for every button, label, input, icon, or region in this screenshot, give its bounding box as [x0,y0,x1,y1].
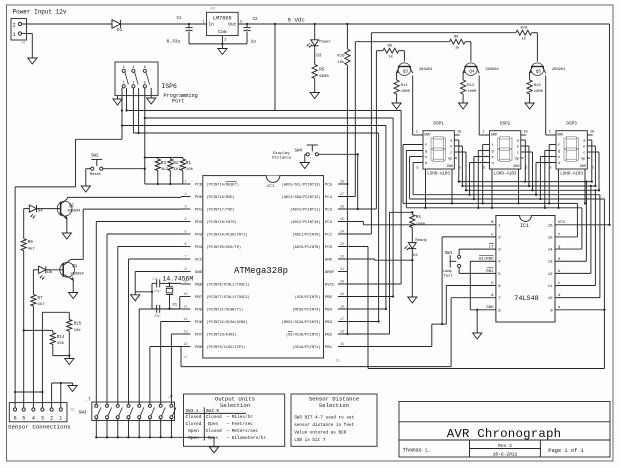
svg-text:11: 11 [548,285,553,289]
diode D1 [112,20,123,33]
svg-text:C1: C1 [177,17,183,21]
wire 5V rail to right edge [238,24,609,225]
wire SPI bus line MISO [122,125,386,127]
svg-text:J4: J4 [21,42,26,46]
IC IC1 74LS48 body [496,216,555,323]
svg-text:PC3: PC3 [325,209,333,213]
svg-text:2: 2 [13,22,16,28]
svg-text:(PCINT18/INT0): (PCINT18/INT0) [207,220,237,225]
svg-text:R4: R4 [416,216,422,220]
wire R7 to J2 pin4 [32,306,34,408]
resistor R14 10k [50,330,65,346]
svg-text:Port: Port [172,98,184,104]
svg-text:IC1: IC1 [520,223,529,229]
svg-text:Test: Test [444,274,453,278]
svg-text:(SCK/PCINT5): (SCK/PCINT5) [295,295,321,300]
svg-text:D4: D4 [38,210,44,214]
svg-text:4: 4 [184,218,186,222]
LED D3 power indicator [307,23,332,59]
svg-text:1: 1 [203,20,205,24]
svg-text:PB6: PB6 [195,284,203,288]
transistor Q4 with R12 1000 [459,42,500,109]
svg-text:1k: 1k [455,45,460,50]
wire J4 pin1 to ground [22,34,33,59]
IC1 left pin labels [479,221,501,313]
capacitor C5 20p [152,305,180,319]
svg-text:(ADC2/PCINT10): (ADC2/PCINT10) [290,220,320,225]
resistor R10 1k [516,27,532,42]
segment bus rows [403,182,604,208]
wire PC3 riser to R8 line [338,51,376,210]
wire J2 pin6 jog to pin3/R15 [15,312,43,393]
IC1 right pin labels [548,221,566,313]
svg-text:Power: Power [319,39,332,44]
svg-text:.0: .0 [168,396,174,400]
svg-text:1: 1 [123,82,125,86]
svg-text:b: b [450,145,452,150]
title author Thomas L. [403,448,432,454]
svg-text:3: 3 [184,205,186,209]
svg-text:3: 3 [132,82,134,86]
svg-text:f: f [492,143,494,148]
crystal cap common rail [151,283,153,308]
svg-text:17: 17 [340,318,344,322]
svg-text:D1: D1 [117,28,123,33]
wire PB1 to IC1 D input [338,286,496,347]
svg-text:U3: U3 [211,8,216,12]
display DSP3 [549,121,594,176]
svg-text:.7: .7 [86,399,92,403]
svg-text:Closed: Closed [206,429,222,434]
svg-text:(MOSI/OC2A/PCINT3): (MOSI/OC2A/PCINT3) [282,320,321,325]
svg-text:PB3: PB3 [325,321,333,325]
svg-text:(SS/OC1B/PCINT2): (SS/OC1B/PCINT2) [286,333,321,338]
wire Q1 collector to PD1 [83,209,181,259]
svg-text:C4: C4 [153,278,157,282]
svg-text:4: 4 [32,416,35,422]
label 14.7456M [163,275,194,282]
svg-text:DSP1: DSP1 [433,121,444,126]
svg-text:11: 11 [183,305,187,309]
svg-text:c: c [583,152,585,156]
ground below R15 [65,359,74,365]
ground below Q1 [69,293,78,299]
svg-text:SW2: SW2 [91,154,99,158]
svg-text:PB0: PB0 [195,346,203,350]
svg-text:(PCINT20/XCK/T0): (PCINT20/XCK/T0) [207,245,242,250]
LED D2 ready [405,228,428,259]
resistor R7 4k7 [31,294,45,307]
svg-text:13: 13 [548,261,553,265]
svg-text:AVCC: AVCC [325,284,335,288]
svg-text:10k: 10k [74,328,82,333]
svg-text:e: e [492,156,494,160]
svg-text:d: d [425,161,427,166]
wire D4 to R6 [24,209,30,239]
svg-text:13: 13 [183,330,187,334]
svg-text:14: 14 [548,249,553,253]
svg-text:7: 7 [184,255,186,259]
svg-text:PC6: PC6 [195,184,203,188]
svg-text:(ADC1/PCINT9): (ADC1/PCINT9) [292,233,320,238]
wire SW2 to reset net [103,168,146,170]
ground at J4 [28,58,37,64]
svg-text:PC0: PC0 [325,246,333,250]
switch SW3 DIP [92,402,176,421]
wire D1 to regulator [121,23,207,25]
svg-text:R14: R14 [57,336,65,340]
resistor R2 4k7 [168,158,181,186]
svg-text:SW4: SW4 [295,150,303,154]
wire GND pin to D2 cathode [338,259,413,261]
svg-text:R6: R6 [28,240,34,245]
ATMega RESET overline [226,180,237,182]
SW3 top wires staircase to ATMega [96,222,181,405]
svg-text:g: g [558,150,560,154]
display DSP1 [416,121,461,176]
ATMega left pin stubs and names [181,180,250,350]
svg-text:a: a [450,140,452,144]
svg-text:b: b [517,145,519,150]
svg-text:SW3: SW3 [79,411,87,416]
svg-text:(PCINT14/RESET): (PCINT14/RESET) [207,183,239,188]
svg-text:GND: GND [513,165,519,169]
switch SW4 display distance [272,145,318,160]
svg-text:D5: D5 [47,271,53,275]
title date 10-6-2012 [493,451,518,457]
display DSP1 wires [403,76,467,209]
switch SW2 reset [90,154,103,177]
svg-text:(ADC3/PCINT11): (ADC3/PCINT11) [290,208,320,213]
ground below IC1 [473,333,482,339]
svg-text:PB7: PB7 [195,296,203,300]
wire SW4 to ground [305,154,306,162]
wire R8 line [376,50,383,52]
capacitor C2 1u [243,18,258,45]
svg-text:a: a [517,140,519,144]
svg-text:GND: GND [491,133,497,137]
resistor R5 6800 [312,46,329,93]
resistor R4 1000 [410,212,426,227]
svg-text:R10: R10 [521,27,529,31]
SW3 bottom wires to ground rail [95,419,214,447]
label Programming Port [164,93,198,104]
svg-text:LSHD-A103: LSHD-A103 [494,173,517,177]
svg-text:28: 28 [340,180,344,184]
svg-text:b: b [583,145,585,150]
svg-text:— Kilometers/hr: — Kilometers/hr [226,436,267,441]
ground at crystal [131,292,140,301]
svg-text:5: 5 [144,82,146,86]
svg-text:C2: C2 [253,18,259,22]
junction dots misc [411,211,413,213]
svg-text:20p: 20p [154,315,161,319]
svg-text:5: 5 [483,166,485,170]
svg-text:1: 1 [416,131,418,135]
svg-text:2N3904: 2N3904 [485,68,499,72]
resistor R8 1k [383,45,399,60]
svg-text:4k7: 4k7 [28,247,36,252]
wire PB2 to R4 ready net [338,212,412,334]
svg-text:3: 3 [41,416,44,422]
ground below ISP6 [147,98,156,104]
svg-text:R8: R8 [388,45,393,49]
svg-text:Rev 2: Rev 2 [498,443,512,449]
svg-text:4: 4 [132,66,134,70]
svg-text:PC5: PC5 [325,184,333,188]
ground below SW3 [209,447,218,453]
svg-text:SW3 BIT 4-7 used to set: SW3 BIT 4-7 used to set [294,415,354,420]
svg-text:d: d [558,161,560,166]
svg-text:2: 2 [224,39,226,43]
svg-text:Ready: Ready [415,238,427,243]
svg-text:(PCINT17/TXD): (PCINT17/TXD) [207,208,235,213]
svg-text:PB5: PB5 [325,296,333,300]
svg-text:SW1: SW1 [445,252,453,256]
svg-text:VCC: VCC [195,259,203,263]
capacitor C1 0.33u [167,17,193,44]
svg-text:f: f [558,143,560,148]
svg-text:10: 10 [548,297,553,301]
svg-text:dp: dp [515,157,519,162]
svg-text:J2: J2 [70,409,75,413]
svg-text:(PCINT21/OC0B/T1): (PCINT21/OC0B/T1) [207,308,244,313]
svg-text:GND: GND [325,259,333,263]
wire J2 pin3 riser [41,392,43,408]
svg-text:10k: 10k [337,60,345,65]
capacitor C4 20p [152,278,181,294]
svg-text:DSP3: DSP3 [566,121,577,126]
wire Q2 collector to PD0 [67,196,181,198]
ground below regulator [218,49,227,55]
svg-text:8: 8 [184,268,186,272]
wire SW4 riser to PC3 net [357,154,359,209]
svg-text:PD5: PD5 [195,309,203,313]
svg-text:R11: R11 [401,84,409,88]
svg-text:sensor distance in feet: sensor distance in feet [294,423,354,428]
svg-text:R2: R2 [173,161,179,166]
svg-text:(PCINT6/XTAL1/TOSC1): (PCINT6/XTAL1/TOSC1) [207,283,250,288]
svg-text:— Miles/hr: — Miles/hr [226,415,254,420]
svg-text:2: 2 [50,416,53,422]
svg-text:(PCINT23/AIN1): (PCINT23/AIN1) [207,333,237,338]
svg-text:1: 1 [13,32,16,38]
wire R15 top to sensor net [42,311,69,313]
svg-text:ATMega328p: ATMega328p [234,266,288,276]
svg-text:Closed: Closed [186,415,202,420]
svg-text:Selection: Selection [220,402,250,409]
segment bus dots at IC1 risers [585,180,596,191]
transistor Q1 2N3904 [60,259,85,292]
svg-text:(ADC0/PCINT8): (ADC0/PCINT8) [292,245,320,250]
svg-text:1: 1 [59,416,62,422]
svg-text:LSHD-A103: LSHD-A103 [560,173,583,177]
svg-text:PB2: PB2 [325,334,333,338]
svg-text:ISP6: ISP6 [162,83,178,90]
svg-text:1: 1 [549,131,551,135]
svg-text:Q1: Q1 [72,265,78,269]
title block [399,402,610,458]
svg-text:GND: GND [195,271,203,275]
svg-text:14: 14 [183,343,187,347]
wire crystal to PB7 [180,297,181,309]
svg-text:g: g [492,150,494,154]
svg-text:PB1: PB1 [325,346,333,350]
wire reset net to PC6 [145,183,181,185]
svg-text:Page 1 of 1: Page 1 of 1 [548,448,584,454]
svg-text:Sensor Connections: Sensor Connections [8,424,71,431]
svg-text:6800: 6800 [319,75,329,79]
svg-text:dp: dp [581,157,585,162]
svg-text:R1: R1 [186,161,192,166]
svg-text:(PCINT0/CLKO/ICP1): (PCINT0/CLKO/ICP1) [207,345,246,350]
svg-text:PD6: PD6 [195,321,203,325]
svg-text:5: 5 [550,166,552,170]
svg-text:e: e [425,156,427,160]
svg-text:e: e [558,156,560,160]
display DSP2 [482,121,527,176]
photodiode D4 [29,205,43,218]
microcontroller uC1 ATMega328p body [203,176,324,358]
wire J4 pin2 to D1 [22,23,112,25]
crystal X1 [166,283,178,310]
wire ATMega GND pin to crystal ground [135,272,181,293]
svg-text:1u: 1u [251,38,257,44]
svg-text:Q5: Q5 [536,71,542,75]
ground below SW4 [300,163,309,169]
svg-text:1k: 1k [522,36,527,41]
svg-text:Open: Open [208,422,219,427]
svg-text:2N3904: 2N3904 [552,68,566,72]
label SW3 [79,411,87,416]
svg-text:Open: Open [188,429,199,434]
svg-text:DSP2: DSP2 [500,121,511,126]
pin number 15 label [336,360,340,364]
svg-text:dp: dp [448,157,452,162]
svg-text:R5: R5 [319,68,325,73]
svg-text:PD0: PD0 [195,196,203,200]
wire RESET line riser to PB5 [338,118,394,298]
resistor R15 10k [67,312,82,333]
svg-text:R7: R7 [37,296,43,301]
svg-text:(MISO/PCINT4): (MISO/PCINT4) [292,308,320,313]
label Power Input 12v [13,8,67,15]
svg-text:R13: R13 [534,84,542,88]
title page 1 of 1 [548,448,584,454]
svg-text:Q4: Q4 [469,71,475,75]
svg-text:2N3904: 2N3904 [67,210,81,214]
svg-text:10: 10 [523,131,527,135]
svg-text:5 Vdc: 5 Vdc [288,16,306,23]
ground below SW2 [81,186,90,192]
wire R9 line [355,41,449,43]
svg-text:1: 1 [482,131,484,135]
svg-text:1: 1 [184,180,186,184]
wire D2 to ground [411,249,413,297]
svg-text:14.7456M: 14.7456M [163,275,194,282]
display DSP2 wires [468,76,533,209]
svg-text:R16: R16 [337,55,345,59]
svg-text:1k: 1k [389,54,394,59]
svg-text:6: 6 [144,66,146,70]
svg-text:PD4: PD4 [195,246,203,250]
svg-text:12: 12 [548,273,553,277]
svg-text:X1: X1 [173,304,178,308]
svg-text:Thomas L.: Thomas L. [403,448,432,454]
svg-text:1000: 1000 [467,90,477,94]
svg-text:PD7: PD7 [195,334,203,338]
svg-text:14: 14 [183,356,187,360]
transistor Q2 2N3904 [57,197,81,233]
wire R14 R15 bottoms to ground [53,331,71,358]
wire D4 to Q2 base [37,208,61,210]
svg-text:D3: D3 [316,54,322,58]
svg-text:In: In [209,22,215,28]
svg-text:f: f [425,143,427,148]
svg-text:PC4: PC4 [325,196,333,200]
svg-text:uC1: uC1 [267,183,276,189]
svg-text:1000: 1000 [534,90,544,94]
svg-text:Display: Display [273,151,290,156]
resistor R1 10k [180,158,193,185]
IC1 right pin wires [555,182,611,311]
svg-text:— Meters/sec: — Meters/sec [226,429,259,434]
wire IC1 BI/RBO to ground net [470,261,496,311]
wire PB0 to IC1 A input [181,298,496,367]
svg-text:GND: GND [447,165,453,169]
title rev 2 [498,443,512,449]
resistor R9 1k [449,36,465,51]
svg-text:GND: GND [557,133,563,137]
svg-text:21: 21 [340,268,344,272]
svg-text:R9: R9 [454,36,459,40]
svg-text:20: 20 [340,280,344,284]
ATMega SS overline [288,331,293,333]
output units selection box [184,394,285,446]
ground stub left of ISP6 [113,96,122,105]
photodiode D5 [39,266,53,279]
svg-text:(OC1A/PCINT1): (OC1A/PCINT1) [292,345,320,350]
wire PC4 riser to R9 line [338,42,355,197]
wire PC0 long net to display bus [338,247,604,369]
svg-text:Value entered as BCD: Value entered as BCD [294,430,347,435]
wire D5 to R7 [33,270,38,295]
svg-text:10: 10 [183,293,187,297]
svg-text:6: 6 [184,243,186,247]
svg-text:Open: Open [188,436,199,441]
svg-text:AVR Chronograph: AVR Chronograph [447,427,562,441]
ground below D2 [408,297,417,303]
wire ISP6 VCC drop [274,23,276,110]
svg-text:18: 18 [340,305,344,309]
svg-text:Lamp: Lamp [443,270,453,274]
svg-text:2N3904: 2N3904 [70,272,84,276]
wire ISP6 MISO jog to sensor connector [15,139,122,187]
svg-text:10k: 10k [57,341,65,346]
svg-text:15: 15 [548,236,553,240]
svg-text:(ADC5/SCL/PCINT13): (ADC5/SCL/PCINT13) [282,183,321,188]
wire J2 pin1 riser [60,383,62,408]
wire ISP6 pin6 to ground [150,88,152,98]
wire IC1 GND pin ground [476,310,478,333]
svg-text:Out: Out [228,22,237,28]
label .7 [86,399,92,403]
svg-text:GND: GND [424,133,430,137]
wire MISO riser to PB4 [338,126,387,311]
svg-text:R15: R15 [74,323,82,327]
svg-text:PD3: PD3 [195,234,203,238]
connector J4 [11,19,27,46]
